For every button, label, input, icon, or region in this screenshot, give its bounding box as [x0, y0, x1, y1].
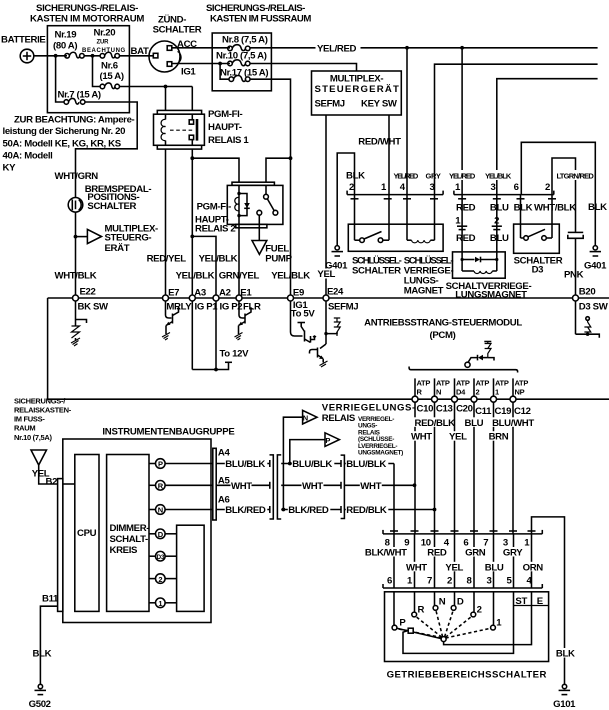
label YEL (E24) — [317, 269, 338, 279]
node dot fuse17 branch — [218, 62, 222, 66]
SECTION: relays — [147, 85, 311, 298]
ST column wire — [403, 592, 514, 654]
transmission range switch box — [385, 592, 549, 662]
svg-text:N: N — [439, 596, 446, 607]
terminal E24 — [323, 295, 329, 301]
svg-text:KASTEN IM MOTORRAUM: KASTEN IM MOTORRAUM — [30, 14, 144, 25]
wire pin6 into D3 box — [520, 195, 522, 238]
svg-text:D3: D3 — [157, 554, 165, 561]
relay U2 coil with diode — [238, 185, 240, 215]
SECTION: top-left battery and engine fuse box — [1, 3, 192, 298]
svg-text:N: N — [158, 506, 163, 515]
CPU box — [75, 455, 99, 612]
svg-text:YEL/BLK: YEL/BLK — [485, 172, 512, 181]
IG1 input transistor Q3 — [290, 301, 292, 332]
svg-text:B20: B20 — [579, 287, 596, 298]
svg-text:BLK/RED: BLK/RED — [288, 505, 329, 516]
svg-text:2: 2 — [494, 216, 499, 227]
wire C11 to range connector — [473, 402, 475, 534]
svg-text:BLK: BLK — [346, 171, 365, 182]
ground G401 left — [335, 246, 339, 250]
key switch contacts — [355, 239, 360, 241]
wires into box to contacts — [393, 592, 395, 626]
SEFMJ network and transistor Q4 — [325, 301, 327, 344]
label YEL C20 — [448, 431, 468, 441]
node rail dot pin1 — [460, 46, 464, 50]
contact R — [412, 612, 417, 617]
svg-text:P: P — [399, 618, 406, 629]
svg-text:BLU/BLK: BLU/BLK — [346, 459, 386, 470]
svg-text:YEL: YEL — [449, 432, 467, 443]
SECTION: instrument cluster — [14, 397, 436, 710]
svg-text:A6: A6 — [218, 494, 230, 505]
shift solenoid inner circuit with diode and coil — [461, 260, 463, 272]
svg-text:PUMP: PUMP — [265, 253, 292, 264]
contact D — [451, 606, 456, 611]
svg-text:DIMMER-: DIMMER- — [110, 523, 150, 534]
ignition IG1 terminal — [167, 62, 172, 67]
svg-text:YEL/RED: YEL/RED — [394, 172, 419, 181]
svg-text:RED/BLK: RED/BLK — [415, 418, 456, 429]
svg-text:WHT: WHT — [411, 432, 432, 443]
svg-text:LTGRN/RED: LTGRN/RED — [557, 172, 595, 181]
wire node B down to fuse6 — [93, 56, 101, 87]
relay U2 bottom bar — [236, 224, 267, 227]
svg-text:Nr.10 (7,5 A): Nr.10 (7,5 A) — [216, 50, 267, 61]
svg-text:SEFMJ: SEFMJ — [328, 302, 358, 313]
wire up to P relay triangle — [290, 440, 325, 464]
label YEL — [31, 468, 48, 478]
relay U1 coil — [165, 114, 167, 119]
relay U1 bottom bar — [157, 145, 201, 149]
svg-text:YEL/RED: YEL/RED — [317, 43, 357, 54]
ground G401 right — [593, 246, 597, 250]
wire YEL/RED rail from fuse8 — [250, 47, 598, 49]
wire SEFMJ to E24 — [325, 115, 327, 298]
ignition ACC terminal — [167, 46, 172, 51]
wire C19 to range connector — [493, 402, 495, 534]
svg-text:D4: D4 — [456, 388, 466, 397]
svg-text:RED: RED — [456, 233, 476, 244]
svg-text:(SCHLÜSSE-: (SCHLÜSSE- — [358, 434, 394, 443]
node dot WHT join — [413, 483, 417, 487]
svg-text:ATP: ATP — [495, 379, 509, 388]
wire KEYSW to key switch pin1 — [388, 115, 390, 195]
SECTION: PCM — [48, 287, 609, 418]
contact N — [433, 606, 438, 611]
svg-text:40A: Modell: 40A: Modell — [3, 151, 53, 162]
PCM box outline bottom — [48, 398, 609, 400]
shift lock solenoid box — [453, 252, 506, 278]
svg-text:B11: B11 — [42, 594, 59, 605]
D3 SW input network — [575, 301, 577, 334]
wire YEL/RED rail to key lock pin4 — [406, 48, 408, 195]
wire pin1 into key switch box — [388, 195, 390, 241]
svg-text:E9: E9 — [293, 288, 304, 299]
svg-text:RELAIS: RELAIS — [322, 413, 356, 424]
svg-text:WHT/BLK: WHT/BLK — [55, 271, 97, 282]
svg-text:GRY: GRY — [426, 172, 441, 181]
svg-text:IG1: IG1 — [181, 67, 196, 78]
wire into shift magnet box — [461, 226, 463, 259]
ground G502 — [38, 684, 42, 688]
svg-text:BLU: BLU — [490, 202, 509, 213]
svg-text:Nr.17 (15 A): Nr.17 (15 A) — [220, 68, 268, 79]
contact P — [392, 625, 397, 630]
svg-text:YEL/BLK: YEL/BLK — [176, 271, 215, 282]
svg-text:UNGSMAGNET): UNGSMAGNET) — [358, 450, 403, 457]
svg-text:BLU/WHT: BLU/WHT — [492, 418, 534, 429]
svg-text:BLK: BLK — [588, 202, 607, 213]
fuse Nr.20 — [100, 54, 105, 59]
svg-text:RED: RED — [456, 202, 476, 213]
svg-text:G401: G401 — [584, 261, 607, 272]
svg-text:RED/WHT: RED/WHT — [358, 137, 401, 148]
svg-text:KREIS: KREIS — [110, 545, 139, 556]
wire pin3 into box — [434, 195, 436, 241]
wire A5 row — [216, 484, 270, 486]
indicator D — [149, 533, 156, 535]
wire B11 to G502 — [40, 606, 57, 684]
terminal C12 — [510, 396, 516, 402]
svg-text:RELAIS 1: RELAIS 1 — [208, 135, 249, 146]
switch D3 contacts — [521, 237, 524, 239]
svg-text:BLU: BLU — [465, 418, 484, 429]
wire up to N relay triangle — [283, 417, 302, 509]
ATP cell bars — [414, 378, 416, 399]
relay U2 contact — [265, 185, 267, 194]
svg-text:B2: B2 — [46, 477, 58, 488]
wire A3 A2 to 12V rail — [191, 301, 193, 370]
svg-text:YEL/BLK: YEL/BLK — [199, 254, 238, 265]
dimmer circuit box — [107, 455, 149, 612]
wire PNK to B20 — [575, 238, 577, 298]
wire down to A3 — [191, 158, 193, 298]
ATP clamp zener — [484, 341, 491, 343]
svg-text:E22: E22 — [80, 287, 96, 298]
svg-text:Nr.10 (7,5A): Nr.10 (7,5A) — [14, 433, 52, 442]
wire node A down to fuse7 — [56, 56, 64, 102]
battery symbol — [20, 49, 34, 63]
wire IG1 to footwell fuse 10 — [172, 63, 230, 65]
label RED — [427, 547, 449, 557]
svg-text:N: N — [303, 414, 308, 423]
svg-text:ATP: ATP — [436, 379, 450, 388]
svg-text:KEY SW: KEY SW — [361, 99, 398, 110]
svg-text:leistung der Sicherung Nr. 20: leistung der Sicherung Nr. 20 — [3, 126, 126, 137]
sub connector dashes — [457, 226, 502, 229]
wire YEL/BLK stub to pin3 — [497, 79, 598, 195]
contact 2 — [471, 612, 476, 617]
svg-text:2: 2 — [158, 575, 162, 584]
FLR transistor Q2 — [239, 301, 245, 318]
indicator N — [149, 509, 156, 511]
svg-text:3: 3 — [487, 575, 492, 586]
wire fuse19 to fuse20 — [84, 55, 100, 57]
svg-text:NP: NP — [515, 388, 525, 397]
node dot A3/A2 branch — [190, 235, 194, 239]
wire pin1 shift magnet down — [461, 195, 463, 226]
svg-text:Nr.20: Nr.20 — [94, 28, 116, 39]
instrument cluster box — [63, 439, 211, 623]
indicator D3 — [149, 555, 156, 557]
ignition BAT terminal — [153, 53, 158, 58]
P relay triangle — [325, 433, 339, 447]
svg-text:BRN: BRN — [489, 432, 509, 443]
svg-text:SCHALTER: SCHALTER — [87, 201, 136, 212]
label BLK G101 wire — [555, 648, 575, 658]
fuse Nr.7 — [64, 100, 69, 105]
svg-text:SICHERUNGS-/: SICHERUNGS-/ — [14, 397, 66, 406]
svg-text:C12: C12 — [514, 406, 531, 417]
wire C20 to range connector — [454, 402, 456, 534]
svg-text:SCHALT-: SCHALT- — [110, 534, 149, 545]
wire relay1 coil to E7 — [165, 149, 167, 298]
wire BAT to ignition — [120, 55, 154, 57]
svg-text:BLK/WHT: BLK/WHT — [365, 548, 407, 559]
ATP clamp node circle — [465, 362, 470, 367]
svg-text:GRN/YEL: GRN/YEL — [219, 271, 260, 282]
relay U1 PGM-FI main relay 1 top bar — [157, 110, 201, 114]
svg-text:C11: C11 — [475, 406, 492, 417]
wire BLK pin2 to left G401 — [337, 153, 354, 246]
svg-text:6: 6 — [514, 182, 519, 193]
svg-text:2: 2 — [447, 575, 452, 586]
wire to multiplex triangle — [76, 236, 88, 238]
wire fuse17 to E9 branch — [250, 79, 291, 298]
terminal C11 — [471, 396, 477, 402]
svg-text:(PCM): (PCM) — [430, 330, 456, 341]
wire shift lock pin6 over to right G401 — [521, 142, 595, 245]
wire relay2 contact up to E9 line — [266, 158, 291, 182]
svg-text:RAUM: RAUM — [14, 424, 35, 433]
key lock solenoid coil — [407, 239, 412, 241]
wire switch D3 pin2 over to PNK B20 — [552, 158, 576, 232]
dashed rays to contacts — [397, 610, 491, 638]
terminal B20 — [573, 295, 579, 301]
fuse source triangle B2 — [31, 450, 47, 465]
svg-text:1: 1 — [495, 388, 499, 397]
svg-text:FLR: FLR — [243, 302, 261, 313]
fuel pump triangle — [252, 241, 267, 255]
connector bracket key switch group — [347, 194, 443, 196]
node dot P branch — [288, 462, 292, 466]
svg-text:P: P — [325, 436, 330, 445]
svg-text:R: R — [158, 482, 164, 491]
right segment BLU/BLK to range pin8 — [344, 463, 394, 465]
svg-text:D3 SW: D3 SW — [579, 302, 609, 313]
svg-text:STEUERG-: STEUERG- — [105, 232, 152, 243]
svg-text:G502: G502 — [29, 699, 51, 710]
relay U1 contact — [191, 114, 193, 120]
wire down to fuse 17 — [220, 64, 229, 80]
svg-text:Nr.19: Nr.19 — [55, 30, 77, 41]
SECTION: range switch — [364, 402, 576, 710]
label BLU — [484, 562, 504, 572]
svg-text:Nr.7 (15 A): Nr.7 (15 A) — [58, 90, 101, 101]
node rail dot pin4 — [405, 46, 409, 50]
svg-text:6: 6 — [387, 575, 392, 586]
svg-text:BLU/BLK: BLU/BLK — [292, 459, 332, 470]
svg-text:G101: G101 — [553, 699, 576, 710]
label YEL/RED on rail — [316, 42, 361, 53]
svg-text:R: R — [417, 388, 423, 397]
terminal C19 — [491, 396, 497, 402]
svg-text:(15 A): (15 A) — [100, 71, 124, 82]
node dot fuse6/relay1 coil — [164, 85, 168, 89]
PCM box outline top — [48, 297, 609, 299]
node dot N branch — [282, 508, 286, 512]
svg-text:ERÄT: ERÄT — [105, 243, 130, 254]
range upper connector bracket — [383, 533, 542, 535]
svg-text:SEFMJ: SEFMJ — [315, 99, 345, 110]
inline connector on PNK wire — [568, 231, 583, 233]
label WHT — [405, 562, 427, 572]
wire to relay2 coil — [192, 158, 239, 182]
svg-text:P: P — [158, 460, 163, 469]
svg-text:MAGNET: MAGNET — [404, 286, 444, 297]
label WHT C10 — [410, 431, 431, 441]
svg-text:3: 3 — [491, 182, 496, 193]
label BLU/WHT C12 — [491, 417, 532, 427]
svg-text:BLK: BLK — [556, 649, 575, 660]
range lower connector bracket — [383, 587, 542, 589]
terminal E9 — [288, 295, 294, 301]
contact 1 — [491, 625, 496, 630]
svg-text:D: D — [457, 596, 464, 607]
SECTION: multiplex and key/shift lock — [312, 48, 608, 301]
svg-text:WHT/GRN: WHT/GRN — [55, 171, 99, 182]
svg-text:MULTIPLEX-: MULTIPLEX- — [330, 74, 384, 85]
svg-text:IG P1: IG P1 — [195, 302, 219, 313]
right connector bar — [213, 448, 216, 520]
wire NP loop to G101 — [532, 517, 565, 684]
terminal A2 — [213, 295, 219, 301]
relay U2 body — [227, 185, 283, 224]
svg-text:C10: C10 — [417, 404, 434, 415]
node dot RED/BLK join — [433, 508, 437, 512]
svg-text:2: 2 — [349, 182, 354, 193]
svg-text:E7: E7 — [168, 288, 179, 299]
svg-text:PGM-FI-: PGM-FI- — [197, 202, 231, 213]
svg-text:GRN: GRN — [465, 548, 486, 559]
svg-text:LUNGSMAGNET: LUNGSMAGNET — [455, 290, 527, 301]
fuse Nr.6 — [100, 84, 105, 89]
wire pin2 into key switch box — [354, 195, 356, 241]
svg-text:2: 2 — [476, 388, 480, 397]
svg-text:C13: C13 — [436, 404, 453, 415]
switch D3 box — [514, 224, 560, 253]
label RED/BLK C13 — [414, 417, 454, 427]
N relay triangle — [303, 410, 317, 424]
svg-text:BLK: BLK — [33, 649, 52, 660]
svg-text:E1: E1 — [240, 288, 252, 299]
MRLY transistor Q1 — [166, 301, 172, 318]
key switch and key lock solenoid box — [348, 224, 443, 251]
node dot multiplex branch — [74, 235, 78, 239]
relay U1 body — [154, 114, 205, 145]
svg-text:E24: E24 — [327, 287, 344, 298]
label ORN — [522, 562, 544, 572]
label GRY — [502, 547, 523, 557]
rotor pivot — [441, 637, 446, 642]
E column wire — [444, 592, 532, 645]
wire A4 row — [216, 463, 270, 465]
wire down to relay1 contact pin — [191, 87, 193, 111]
fuse Nr.19 — [65, 54, 70, 59]
svg-text:ORN: ORN — [523, 562, 544, 573]
wire ACC to footwell fuse 8 — [172, 47, 230, 49]
indicator 1 — [149, 602, 156, 604]
svg-text:(80 A): (80 A) — [53, 41, 77, 52]
svg-text:WHT: WHT — [360, 481, 381, 492]
svg-text:WHT: WHT — [406, 562, 427, 573]
label BLK/WHT — [364, 547, 404, 557]
fuse Nr.8 — [228, 46, 233, 51]
svg-text:7: 7 — [427, 575, 432, 586]
terminal C20 — [452, 396, 458, 402]
svg-text:C20: C20 — [456, 404, 473, 415]
indicator 2 — [149, 578, 156, 580]
node dot on E9 wire — [289, 156, 293, 160]
footwell fuse box — [212, 33, 271, 91]
svg-text:BLU: BLU — [485, 562, 504, 573]
rotor lever solid with slider — [397, 628, 442, 638]
right segment RED/BLK joins C13 wire — [344, 509, 434, 511]
left connector bar — [58, 479, 63, 612]
svg-text:C19: C19 — [495, 406, 512, 417]
svg-text:BLU/BLK: BLU/BLK — [225, 459, 265, 470]
wire YEL/RED rail to shift pin1 — [461, 48, 463, 195]
indicator R — [149, 484, 156, 486]
wires between connectors — [393, 534, 395, 588]
svg-text:A4: A4 — [218, 448, 231, 459]
wire fuse to B2 connector — [39, 465, 58, 484]
svg-text:BLK: BLK — [514, 202, 533, 213]
connector terminal dashes group2 — [458, 198, 556, 200]
wire B2 into cpu — [63, 483, 75, 485]
svg-text:INSTRUMENTENBAUGRUPPE: INSTRUMENTENBAUGRUPPE — [102, 427, 235, 438]
wire branch to A2 — [192, 236, 216, 298]
wire A6 row — [216, 509, 270, 511]
svg-text:WHT: WHT — [231, 481, 252, 492]
svg-text:WHT: WHT — [302, 481, 323, 492]
connector bracket right group — [454, 194, 554, 196]
svg-text:KASTEN IM FUSSRAUM: KASTEN IM FUSSRAUM — [210, 14, 311, 25]
svg-text:ZUR: ZUR — [97, 40, 110, 46]
svg-text:SCHALTER: SCHALTER — [352, 266, 401, 277]
svg-text:BLK/RED: BLK/RED — [225, 505, 266, 516]
svg-text:RED: RED — [427, 548, 447, 559]
terminal E7 — [163, 295, 169, 301]
single bracket connector — [341, 455, 345, 518]
svg-text:R: R — [418, 605, 425, 616]
svg-text:RED/BLK: RED/BLK — [346, 505, 387, 516]
label BRN C19 — [488, 431, 509, 441]
inline connector brackets pair — [270, 455, 274, 519]
svg-text:WHT/BLK: WHT/BLK — [534, 202, 576, 213]
fuse Nr.10 — [228, 61, 233, 66]
wire GRY stub — [435, 64, 598, 194]
svg-text:To 12V: To 12V — [220, 348, 250, 359]
wire fuse6 out to relay1 feeds — [120, 86, 193, 88]
wire C10 to range connector — [414, 402, 416, 534]
relay U2 PGM-FI main relay 2 top bar — [232, 182, 274, 185]
wire relay2 coil to E1 — [238, 216, 240, 298]
svg-text:BATTERIE: BATTERIE — [1, 35, 46, 46]
ATP brace — [409, 367, 517, 373]
svg-text:STEUERGERÄT: STEUERGERÄT — [315, 84, 399, 95]
